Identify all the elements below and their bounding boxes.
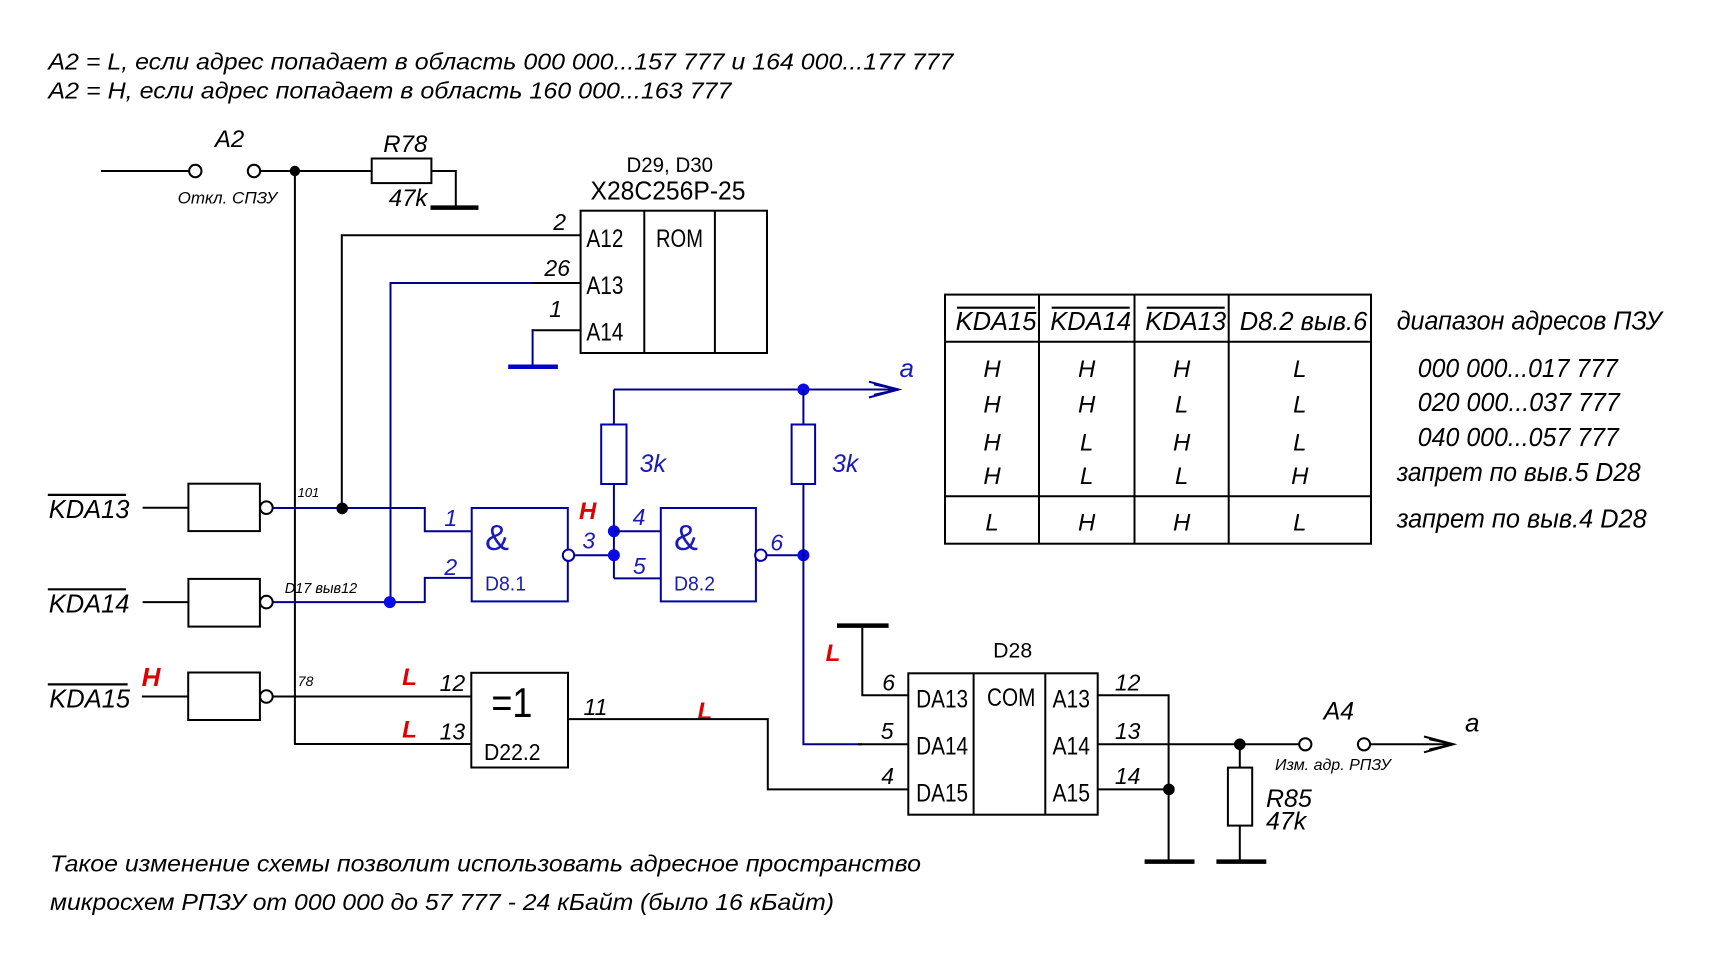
- wire R85 top stub: [1239, 744, 1241, 767]
- svg-text:X28C256P-25: X28C256P-25: [591, 176, 746, 206]
- wire R85 bottom stub: [1239, 826, 1241, 861]
- svg-text:A2: A2: [213, 126, 244, 153]
- svg-text:78: 78: [298, 673, 314, 689]
- svg-text:KDA13: KDA13: [1145, 308, 1226, 336]
- svg-text:L: L: [985, 510, 998, 537]
- svg-text:D8.2: D8.2: [674, 573, 715, 595]
- svg-text:A2 = H, если адрес попадает в: A2 = H, если адрес попадает в область 16…: [46, 78, 732, 104]
- svg-text:ROM: ROM: [656, 225, 703, 253]
- node dot top net (blue): [797, 384, 809, 396]
- svg-text:H: H: [1078, 356, 1096, 383]
- svg-text:040 000...057 777: 040 000...057 777: [1418, 424, 1620, 452]
- svg-text:H: H: [142, 662, 162, 692]
- truth table frame: [945, 295, 1371, 544]
- svg-text:A13: A13: [586, 272, 623, 300]
- ground at D28 pin 6: [837, 623, 889, 628]
- wire net A12 from KDA13 node: [342, 235, 581, 508]
- inversion bubble D8.2 output: [755, 550, 766, 561]
- op gate AND D8.2: [661, 508, 756, 601]
- wire D28 pin 14 to vertical: [1098, 788, 1169, 790]
- ground for A14 (blue): [508, 364, 558, 369]
- wire D28 pin 12 down to ground: [1098, 695, 1169, 861]
- svg-text:11: 11: [584, 694, 608, 720]
- ROM U-D29 box: [581, 211, 767, 353]
- ground for R78: [431, 205, 479, 210]
- svg-text:1: 1: [444, 505, 457, 531]
- switch A4 contact 1: [1299, 738, 1311, 750]
- wire pin stub A14: [532, 329, 581, 331]
- svg-text:13: 13: [440, 718, 466, 744]
- wire KDA13 net to D8.1 pin 1 (blue): [273, 508, 472, 531]
- resistor 3k (left): [601, 425, 626, 485]
- wire vertical node pin3/4/5 (blue): [613, 484, 615, 579]
- wire pin 3 of D8.1: [574, 554, 614, 556]
- resistor R78: [372, 159, 432, 184]
- svg-text:DA13: DA13: [916, 686, 968, 714]
- svg-text:14: 14: [1115, 763, 1141, 789]
- svg-text:A14: A14: [1053, 733, 1091, 761]
- svg-text:2: 2: [443, 554, 457, 580]
- svg-text:13: 13: [1115, 718, 1141, 744]
- svg-text:26: 26: [543, 255, 570, 281]
- wire into switch A2: [101, 170, 189, 172]
- svg-text:COM: COM: [987, 684, 1035, 712]
- svg-text:a: a: [1465, 708, 1479, 738]
- switch A4 contact 2: [1358, 738, 1370, 750]
- svg-text:D22.2: D22.2: [484, 739, 541, 765]
- wire A2 vertical bus to D22.2 pin 13: [295, 171, 471, 744]
- arrow to net a (black): [1424, 737, 1454, 753]
- svg-text:4: 4: [633, 504, 646, 530]
- svg-text:A15: A15: [1053, 779, 1091, 807]
- svg-text:KDA13: KDA13: [49, 496, 130, 524]
- arrow to net a (blue): [869, 382, 899, 398]
- svg-text:101: 101: [298, 485, 320, 500]
- svg-text:L: L: [1175, 463, 1188, 490]
- buffer (inverter) for KDA13: [188, 484, 260, 531]
- svg-text:L: L: [402, 664, 417, 691]
- svg-text:DA14: DA14: [916, 733, 968, 761]
- svg-text:Изм. адр. РПЗУ: Изм. адр. РПЗУ: [1275, 757, 1392, 774]
- node dot A13/KDA14 junction (blue): [384, 596, 396, 608]
- svg-text:1: 1: [549, 296, 562, 322]
- op gate AND D8.1: [472, 508, 568, 601]
- ground under pin 12/14 vertical: [1145, 859, 1195, 864]
- wire KDA15 net to D22.2 pin 12: [273, 696, 471, 698]
- svg-text:H: H: [983, 392, 1001, 419]
- svg-text:47k: 47k: [389, 185, 430, 212]
- resistor 3k (right): [792, 425, 816, 485]
- svg-text:H: H: [579, 498, 597, 525]
- node dot pin 14 junction: [1163, 784, 1175, 796]
- svg-text:A12: A12: [586, 225, 623, 253]
- svg-text:L: L: [1293, 510, 1306, 537]
- wire pin 5 of D8.2: [614, 577, 661, 579]
- wire switch A4 to net a: [1370, 743, 1449, 745]
- buffer (inverter) for KDA15: [188, 673, 260, 721]
- svg-text:5: 5: [881, 718, 894, 744]
- inversion bubble D8.1 output: [563, 550, 574, 561]
- switch A2 contact 1: [189, 165, 201, 177]
- svg-text:DA15: DA15: [916, 779, 968, 807]
- wire pin 6 of D8.2: [767, 554, 804, 556]
- svg-text:H: H: [1173, 510, 1191, 537]
- svg-text:микросхем РПЗУ от 000 000 до 5: микросхем РПЗУ от 000 000 до 57 777 - 24…: [50, 889, 834, 915]
- wire pin 4 of D8.2: [614, 530, 661, 532]
- wire pin stub A13: [530, 282, 581, 284]
- svg-text:H: H: [1078, 392, 1096, 419]
- ground under R85: [1216, 859, 1266, 864]
- svg-text:A14: A14: [586, 319, 623, 347]
- svg-text:L: L: [1293, 430, 1306, 457]
- wire D28 pin 13 to switch A4: [1098, 743, 1300, 745]
- svg-text:R78: R78: [383, 131, 428, 158]
- svg-text:H: H: [983, 356, 1001, 383]
- svg-text:диапазон адресов ПЗУ: диапазон адресов ПЗУ: [1397, 307, 1665, 335]
- wire net A13 (blue) to KDA14 node: [391, 283, 532, 602]
- node junction A2: [290, 166, 300, 176]
- table row 1: [983, 356, 1309, 536]
- svg-text:H: H: [983, 463, 1001, 490]
- node dot pin 4 junction (blue): [608, 525, 620, 537]
- svg-text:запрет по выв.4 D28: запрет по выв.4 D28: [1396, 506, 1648, 534]
- wire right 3k net down to DA14 (blue): [802, 390, 804, 425]
- svg-text:L: L: [697, 698, 712, 725]
- svg-text:D8.1: D8.1: [485, 573, 526, 595]
- svg-text:2: 2: [552, 209, 566, 235]
- svg-text:L: L: [1175, 392, 1188, 419]
- wire KDA14 net to D8.1 pin 2 (blue): [273, 578, 472, 602]
- wire D22.2 output to D28 DA15: [568, 719, 908, 789]
- buffer (inverter) for KDA14: [188, 579, 260, 627]
- switch A2 contact 2: [248, 165, 260, 177]
- op gate XOR D22.2: [471, 673, 568, 768]
- svg-text:запрет по выв.5 D28: запрет по выв.5 D28: [1396, 459, 1642, 487]
- svg-text:12: 12: [1115, 670, 1141, 696]
- svg-text:L: L: [1293, 392, 1306, 419]
- wire KDA13 input: [143, 507, 189, 509]
- svg-text:D29, D30: D29, D30: [627, 154, 714, 177]
- wire A14 to ground (blue): [532, 329, 534, 364]
- svg-text:a: a: [900, 353, 914, 383]
- wire black stub to D28 pin 5: [858, 743, 908, 745]
- svg-text:L: L: [1080, 430, 1093, 457]
- svg-text:A4: A4: [1322, 698, 1355, 726]
- svg-text:12: 12: [440, 670, 466, 696]
- svg-text:&: &: [485, 517, 509, 558]
- chip D28 box: [908, 673, 1097, 814]
- svg-text:L: L: [1293, 356, 1306, 383]
- svg-text:4: 4: [881, 763, 894, 789]
- wire ground to D28 pin 6: [862, 628, 908, 695]
- svg-text:D17 выв12: D17 выв12: [285, 581, 358, 597]
- svg-text:A2 = L, если адрес попадает в: A2 = L, если адрес попадает в область 00…: [46, 49, 954, 75]
- svg-text:KDA15: KDA15: [49, 686, 131, 714]
- svg-text:5: 5: [633, 553, 646, 579]
- svg-text:6: 6: [882, 670, 895, 696]
- svg-text:3: 3: [582, 528, 595, 554]
- svg-text:3k: 3k: [832, 450, 860, 478]
- svg-text:D28: D28: [993, 640, 1032, 663]
- svg-text:3k: 3k: [640, 450, 668, 478]
- wire KDA15 input: [142, 696, 188, 698]
- wire top net a (blue): [614, 389, 894, 391]
- wire 3k left top stub (blue): [613, 390, 615, 425]
- svg-text:H: H: [1173, 356, 1191, 383]
- svg-text:L: L: [402, 716, 417, 743]
- svg-text:KDA15: KDA15: [956, 308, 1038, 336]
- svg-text:A13: A13: [1053, 686, 1091, 714]
- svg-text:H: H: [1078, 510, 1096, 537]
- wire switch A2 to R78: [260, 170, 372, 172]
- svg-text:D8.2 выв.6: D8.2 выв.6: [1240, 308, 1368, 336]
- svg-text:=1: =1: [491, 679, 532, 726]
- svg-text:KDA14: KDA14: [49, 591, 130, 619]
- node dot pin 3 junction (blue): [608, 549, 620, 561]
- svg-text:6: 6: [770, 529, 783, 555]
- svg-text:47k: 47k: [1266, 808, 1308, 836]
- wire KDA14 input: [143, 601, 189, 603]
- wire R78 to ground: [431, 171, 455, 206]
- svg-text:Откл. СПЗУ: Откл. СПЗУ: [178, 189, 280, 208]
- node dot A12/KDA13 junction: [336, 503, 348, 515]
- svg-text:L: L: [826, 640, 841, 667]
- svg-text:000 000...017 777: 000 000...017 777: [1418, 355, 1619, 383]
- svg-text:020 000...037 777: 020 000...037 777: [1418, 389, 1621, 417]
- resistor R85: [1228, 768, 1252, 826]
- svg-text:H: H: [1173, 430, 1191, 457]
- svg-text:L: L: [1080, 463, 1093, 490]
- svg-text:&: &: [674, 517, 698, 558]
- svg-text:Такое изменение схемы позволит: Такое изменение схемы позволит использов…: [50, 851, 921, 877]
- svg-text:H: H: [1291, 463, 1309, 490]
- node dot pin 6 junction (blue): [797, 549, 809, 561]
- node dot R85 junction: [1234, 739, 1246, 751]
- svg-text:H: H: [983, 430, 1001, 457]
- svg-text:KDA14: KDA14: [1050, 308, 1131, 336]
